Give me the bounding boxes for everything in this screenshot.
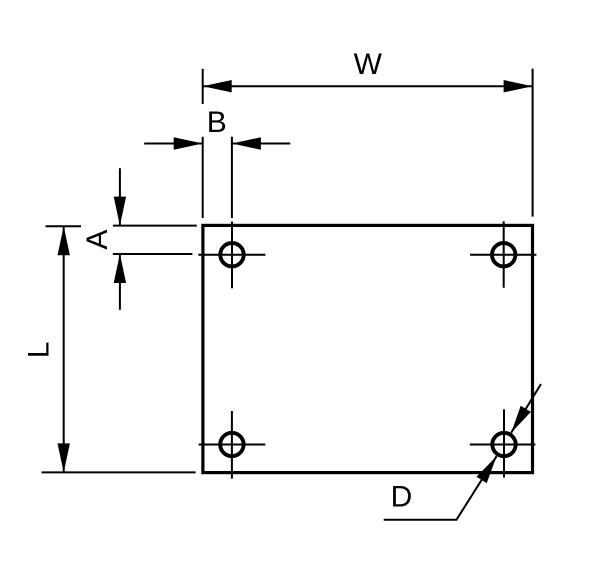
dimension A line lower (119, 254, 121, 310)
svg-text:B: B (207, 106, 227, 139)
dimension B line right (232, 143, 290, 145)
dimension W extension line left (202, 69, 204, 104)
dimension A line upper (119, 168, 121, 225)
dimension B extension line left (202, 137, 204, 218)
hole top-right (492, 243, 515, 266)
centerline bottom-right horizontal (470, 444, 536, 446)
dimension L arrow bottom (58, 443, 70, 472)
hole bottom-left (220, 433, 243, 456)
dimension A arrow lower (114, 254, 126, 283)
svg-text:W: W (354, 48, 383, 81)
leader D upper arrow (511, 406, 531, 433)
dimension A arrow upper (114, 197, 126, 226)
leader D lower line (384, 456, 497, 520)
dimension A extension line top (113, 225, 197, 227)
hole bottom-right (492, 433, 515, 456)
leader D lower arrow (477, 456, 497, 483)
dimension W line (204, 85, 532, 87)
dimension B line left (144, 143, 203, 145)
dimension W extension line right (532, 69, 534, 217)
centerline top-left vertical (231, 222, 233, 289)
dimension B arrow left (174, 137, 203, 149)
centerline top-left horizontal (198, 254, 265, 256)
dimension L extension line top (46, 225, 82, 227)
plate outline (203, 225, 533, 472)
svg-text:D: D (391, 480, 413, 513)
dimension L arrow top (58, 226, 70, 255)
centerline bottom-left horizontal (199, 444, 266, 446)
dimension B extension line right (231, 137, 233, 218)
centerline bottom-left vertical (231, 411, 233, 479)
hole top-left (220, 243, 243, 266)
dimension W arrow left (203, 80, 232, 92)
leader D upper line (511, 384, 541, 433)
dimension B arrow right (232, 137, 261, 149)
svg-text:L: L (23, 342, 56, 359)
centerline top-right vertical (503, 221, 505, 288)
svg-text:A: A (81, 230, 114, 250)
dimension W arrow right (504, 80, 533, 92)
dimension A extension line bottom (113, 253, 192, 255)
dimension L line (63, 227, 65, 472)
dimension L extension line bottom (42, 471, 196, 473)
centerline top-right horizontal (470, 254, 536, 256)
centerline bottom-right vertical (503, 409, 505, 477)
